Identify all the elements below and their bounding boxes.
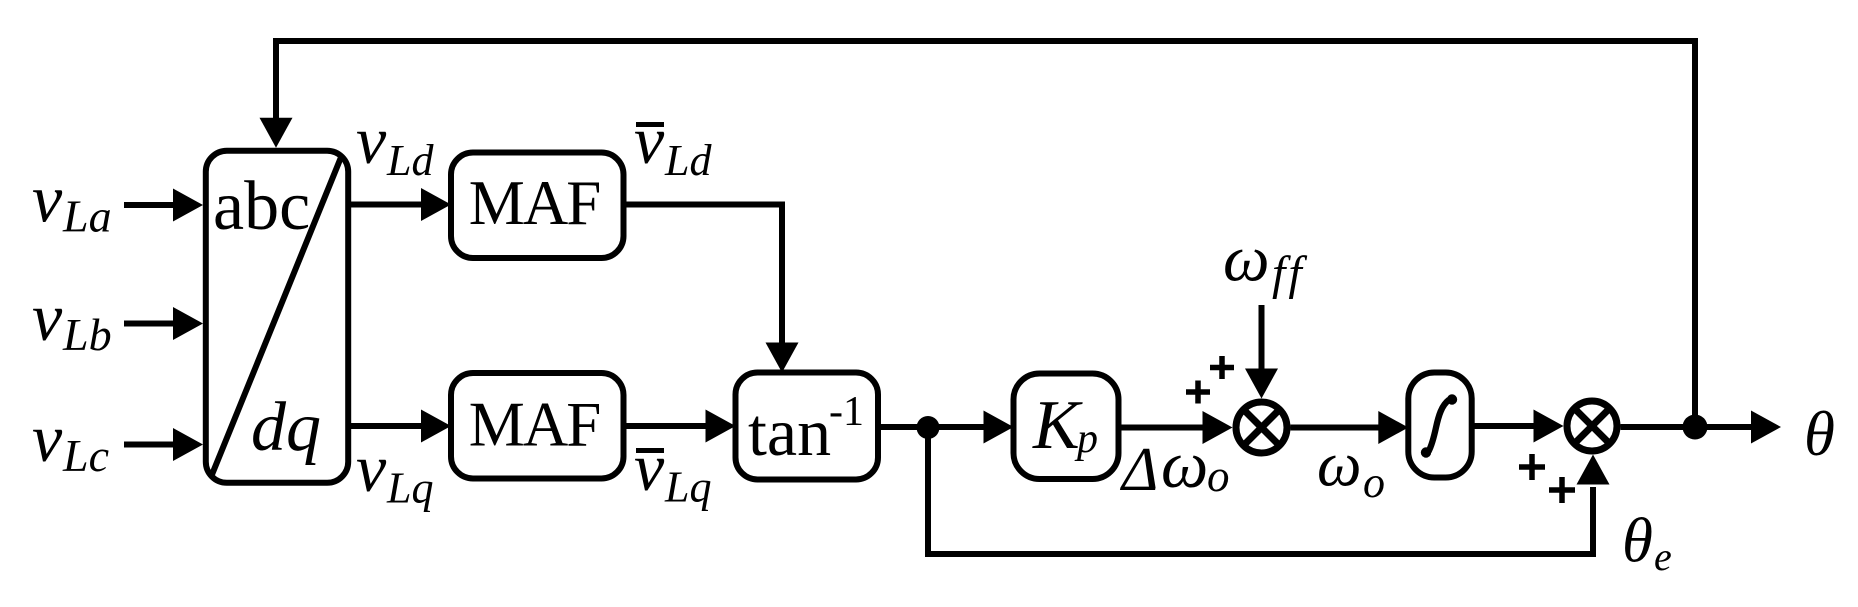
wire input vLb xyxy=(124,307,203,340)
label vLd xyxy=(356,102,434,185)
wire Kp to S1 xyxy=(1119,411,1233,444)
svg-text:e: e xyxy=(1654,534,1672,579)
svg-text:ω: ω xyxy=(1317,430,1361,500)
svg-text:ff: ff xyxy=(1272,247,1307,300)
svg-text:Lq: Lq xyxy=(386,464,433,513)
svg-text:-1: -1 xyxy=(829,389,864,435)
label omega_ff xyxy=(1223,223,1307,301)
wire arctan to Kp xyxy=(878,411,1014,444)
svg-text:v: v xyxy=(356,102,387,178)
label vLb xyxy=(32,279,112,360)
svg-text:θ: θ xyxy=(1804,399,1835,469)
wire bottom feedback theta_e to S2 xyxy=(928,428,1610,555)
svg-text:Lb: Lb xyxy=(62,309,112,360)
svg-text:La: La xyxy=(62,191,112,242)
wire input vLc xyxy=(124,428,203,461)
label vLc xyxy=(32,400,109,481)
plus sign S1 left xyxy=(1186,381,1210,404)
wire top feedback theta to abc/dq xyxy=(260,41,1696,427)
svg-text:v: v xyxy=(32,161,63,237)
wire abc/dq to MAF1 xyxy=(348,188,451,221)
svg-text:v: v xyxy=(32,279,63,355)
svg-text:K: K xyxy=(1032,387,1083,464)
label vbar_Ld xyxy=(634,102,712,185)
block abc/dq transform xyxy=(206,151,348,483)
svg-text:abc: abc xyxy=(213,168,310,245)
plus sign S1 top xyxy=(1210,356,1234,379)
svg-text:θ: θ xyxy=(1622,506,1653,576)
label omega_o xyxy=(1317,430,1385,508)
svg-text:MAF: MAF xyxy=(469,168,600,238)
summing junction S1 xyxy=(1236,402,1287,453)
svg-text:tan: tan xyxy=(748,394,831,470)
svg-text:ω: ω xyxy=(1161,428,1208,502)
label theta_e xyxy=(1622,506,1672,580)
svg-text:p: p xyxy=(1074,416,1098,462)
plus sign S2 left xyxy=(1519,454,1545,480)
block Kp gain xyxy=(1014,374,1119,480)
label vbar_Lq xyxy=(634,429,711,512)
block integrator xyxy=(1408,373,1471,478)
svg-text:dq: dq xyxy=(251,389,321,466)
label vLa xyxy=(32,161,112,242)
label vLq xyxy=(356,430,433,513)
svg-text:o: o xyxy=(1207,451,1230,501)
svg-text:MAF: MAF xyxy=(469,390,600,460)
wire abc/dq to MAF2 xyxy=(348,410,451,443)
wire omega_ff into S1 xyxy=(1245,305,1278,399)
block arctan U1 xyxy=(736,373,879,480)
svg-text:Δ: Δ xyxy=(1119,436,1158,504)
wire MAF1 to arctan (corner) xyxy=(624,205,799,373)
svg-text:ω: ω xyxy=(1223,223,1270,296)
wire input vLa xyxy=(124,189,203,222)
svg-text:v: v xyxy=(634,102,665,178)
wire S1 to integrator xyxy=(1291,411,1409,444)
svg-text:v: v xyxy=(32,400,63,476)
svg-text:Lq: Lq xyxy=(664,463,711,512)
svg-text:v: v xyxy=(356,430,387,506)
node junction after arctan xyxy=(917,416,940,439)
plus sign S2 bottom xyxy=(1549,477,1575,503)
block MAF2 xyxy=(451,373,624,479)
block MAF1 xyxy=(451,153,624,259)
wire S2 to theta output xyxy=(1621,411,1782,444)
svg-text:Lc: Lc xyxy=(62,430,109,481)
wire MAF2 to arctan xyxy=(624,410,736,443)
svg-text:Ld: Ld xyxy=(386,136,434,185)
summing junction S2 xyxy=(1567,401,1617,451)
svg-text:v: v xyxy=(634,429,665,505)
label delta omega_o xyxy=(1119,428,1230,504)
svg-text:o: o xyxy=(1363,458,1385,507)
svg-text:Ld: Ld xyxy=(664,136,712,185)
node junction on output xyxy=(1683,415,1708,440)
wire integrator to S2 xyxy=(1472,410,1564,443)
